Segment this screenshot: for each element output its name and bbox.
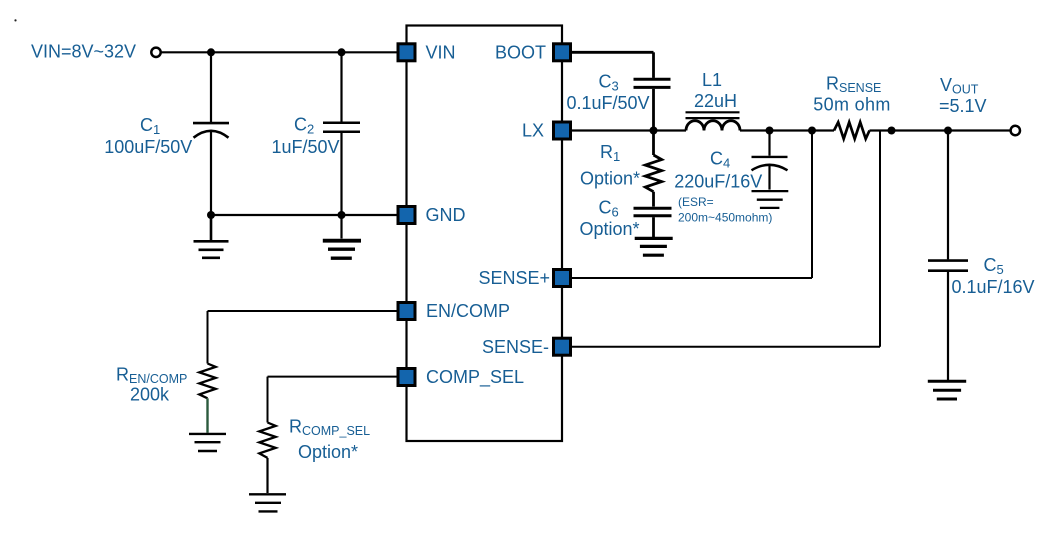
ground REN/COMP <box>189 434 226 451</box>
svg-text:50m ohm: 50m ohm <box>813 94 890 114</box>
wire green segment <box>206 398 208 433</box>
wire C1 top <box>210 52 212 122</box>
node VOUT label <box>939 75 987 116</box>
IC U1 box <box>407 26 563 442</box>
svg-text:1uF/50V: 1uF/50V <box>271 137 339 157</box>
svg-text:VIN: VIN <box>426 43 456 63</box>
capacitor C4 <box>752 157 788 190</box>
junction VOUT node <box>944 127 952 135</box>
svg-text:=5.1V: =5.1V <box>939 96 987 116</box>
capacitor C3 <box>634 79 671 130</box>
svg-text:EN/COMP: EN/COMP <box>426 301 510 321</box>
capacitor C6 <box>634 208 672 237</box>
svg-text:SENSE-: SENSE- <box>482 337 549 357</box>
wire EN/COMP vertical <box>207 311 209 364</box>
pin EN/COMP <box>398 303 415 320</box>
svg-text:200k: 200k <box>130 385 170 405</box>
capacitor C5 value label <box>952 255 1035 297</box>
svg-text:VIN=8V~32V: VIN=8V~32V <box>31 42 136 62</box>
wire L1 to RSENSE <box>740 129 834 131</box>
capacitor C2 <box>323 123 360 216</box>
wire C4 stem <box>768 131 770 156</box>
svg-text:L1: L1 <box>702 70 722 90</box>
resistor RCOMP_SEL label <box>289 417 370 463</box>
resistor R1 <box>645 131 661 207</box>
node VOUT output terminal <box>1011 126 1020 135</box>
svg-text:GND: GND <box>426 205 466 225</box>
wire BOOT to C3 <box>572 52 654 78</box>
resistor REN/COMP label <box>116 365 187 405</box>
svg-text:22uH: 22uH <box>694 91 737 111</box>
resistor R1 label <box>580 142 640 188</box>
wire RCOMP_SEL to ground <box>266 458 268 493</box>
ground RCOMP_SEL <box>249 494 286 511</box>
ground C1 <box>194 215 229 258</box>
resistor REN/COMP <box>199 364 215 399</box>
capacitor C2 value label <box>271 115 339 158</box>
capacitor C6 label <box>579 198 639 239</box>
wire SENSE+ vertical <box>811 131 813 279</box>
svg-text:0.1uF/50V: 0.1uF/50V <box>566 93 649 113</box>
pin LX <box>554 122 571 139</box>
resistor RSENSE label <box>813 74 890 115</box>
junction LX node <box>650 127 658 135</box>
svg-text:Option*: Option* <box>298 442 358 462</box>
capacitor C1 value label <box>104 115 192 157</box>
pin COMP_SEL <box>398 369 415 386</box>
pin SENSE- <box>554 338 571 355</box>
svg-text:200m~450mohm): 200m~450mohm) <box>678 211 772 225</box>
svg-text:SENSE+: SENSE+ <box>478 268 550 288</box>
capacitor C1 <box>193 123 229 216</box>
wire RSENSE to VOUT <box>870 129 1011 131</box>
junction SENSE+ node <box>808 127 816 135</box>
capacitor C4 value label <box>674 149 772 225</box>
ground C5 <box>928 381 966 399</box>
svg-text:0.1uF/16V: 0.1uF/16V <box>952 277 1035 297</box>
stray dot <box>14 19 16 21</box>
wire C5 stem top <box>947 131 949 260</box>
svg-text:Option*: Option* <box>580 168 640 188</box>
pin GND <box>398 207 415 224</box>
node VIN input terminal <box>151 48 160 57</box>
inductor L1 value label <box>694 70 737 111</box>
wire SENSE+ horizontal <box>572 277 813 279</box>
wire GND bus <box>211 214 397 216</box>
wire COMP_SEL horizontal <box>268 376 397 378</box>
wire SENSE- horizontal <box>572 346 881 348</box>
svg-text:BOOT: BOOT <box>495 43 546 63</box>
pin BOOT <box>554 44 571 61</box>
inductor L1 <box>686 112 741 130</box>
pin SENSE+ <box>554 270 571 287</box>
svg-text:(ESR=: (ESR= <box>678 195 714 209</box>
junction dot right of RSENSE <box>888 127 896 135</box>
svg-text:220uF/16V: 220uF/16V <box>674 171 762 191</box>
pin VIN <box>398 44 415 61</box>
resistor RCOMP_SEL <box>259 423 275 458</box>
junction C4 node <box>766 127 774 135</box>
capacitor C3 value label <box>566 72 649 113</box>
svg-text:Option*: Option* <box>579 219 639 239</box>
resistor RSENSE <box>834 122 870 139</box>
wire C2 top <box>340 52 342 121</box>
wire VIN bus <box>161 51 397 53</box>
capacitor C5 <box>928 261 968 380</box>
wire LX to L1 <box>572 129 687 131</box>
wire COMP_SEL vertical <box>267 377 269 423</box>
svg-text:COMP_SEL: COMP_SEL <box>426 367 524 388</box>
junction C1 bottom <box>207 211 215 219</box>
ground C2 <box>323 215 361 258</box>
junction C1 top <box>207 48 215 56</box>
svg-text:LX: LX <box>522 121 544 141</box>
junction C2 top <box>338 48 346 56</box>
junction C2 bottom <box>338 211 346 219</box>
ground C6 <box>635 238 673 255</box>
wire SENSE- vertical <box>879 131 881 347</box>
svg-text:100uF/50V: 100uF/50V <box>104 137 192 157</box>
wire EN/COMP horizontal <box>208 310 397 312</box>
ground C4 <box>752 191 789 208</box>
